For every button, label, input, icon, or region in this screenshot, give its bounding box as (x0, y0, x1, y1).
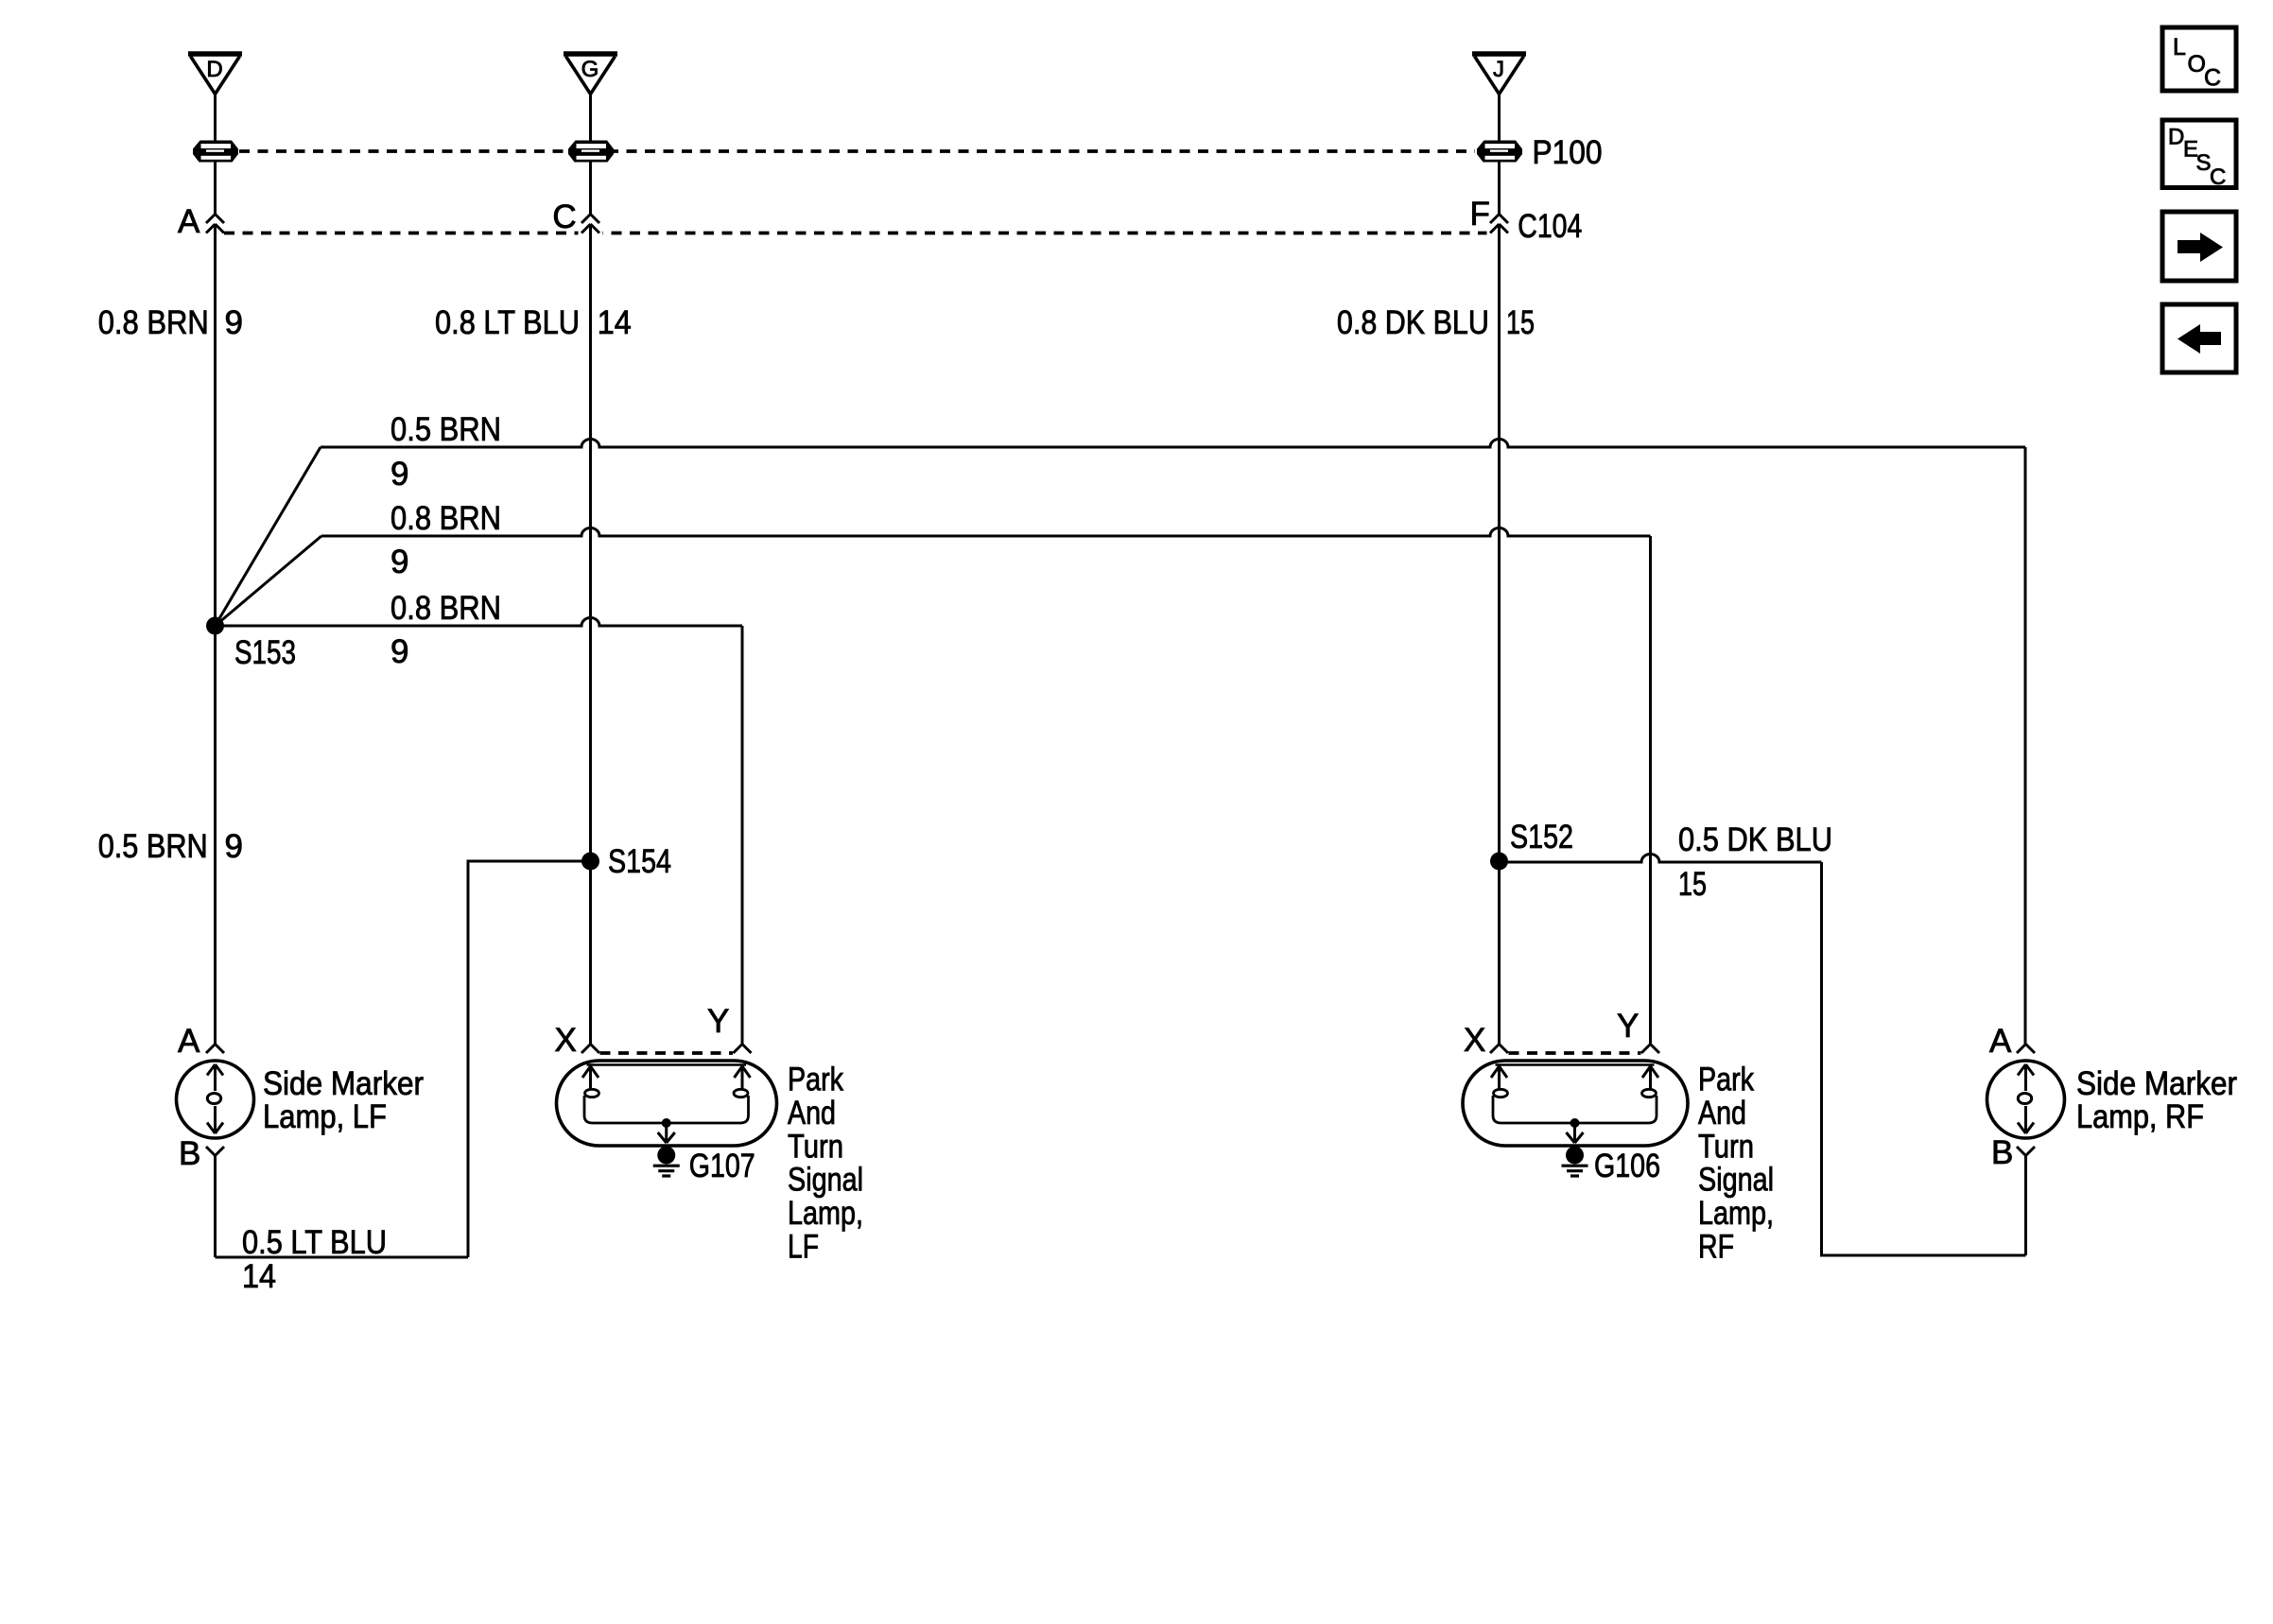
svg-text:9: 9 (390, 544, 408, 580)
svg-text:C: C (552, 199, 576, 235)
svg-text:Signal: Signal (1698, 1162, 1774, 1199)
dash knockout at pin C (579, 225, 603, 238)
legend box LOC (2162, 27, 2236, 92)
wire 0.5 BRN circuit 9 from S153 down to Side Marker LF pin A (214, 626, 217, 1045)
wire 0.8 LT BLU from C104-C down to lamp X pin (LF) (589, 224, 592, 1045)
Park/Turn Signal Lamp LF ground tap junction (662, 1118, 671, 1128)
Park/Turn Signal Lamp LF ground lead with arrow (658, 1123, 675, 1143)
Park/Turn Signal Lamp RF ground tap junction (1570, 1118, 1580, 1128)
Side Marker LF pin B chevron (206, 1147, 224, 1156)
wire: D grommet to connector C104 pin A (214, 163, 217, 215)
svg-text:0.5 BRN: 0.5 BRN (98, 828, 208, 865)
svg-text:F: F (1470, 196, 1490, 233)
wire 0.8 DK BLU from C104-F down to lamp X pin (RF) (1498, 224, 1501, 1045)
svg-text:Park: Park (788, 1062, 843, 1098)
lamp body Park/Turn Signal Lamp RF (stadium outline) (1463, 1061, 1688, 1146)
branch wire 0.8 BRN circuit 9 to Park/Turn RF pin Y (321, 528, 1651, 537)
wire up to Side Marker RF pin B (2024, 1156, 2027, 1256)
wire down right side to Side Marker RF pin A (2024, 447, 2027, 1045)
svg-text:0.8 BRN: 0.8 BRN (390, 500, 501, 537)
svg-text:A: A (1989, 1023, 2012, 1060)
grommet pass-through P100 at wire J (1477, 141, 1522, 163)
Side Marker RF pin A chevron (2017, 1045, 2035, 1054)
svg-text:B: B (1991, 1134, 2013, 1171)
svg-text:0.5 LT BLU: 0.5 LT BLU (242, 1224, 387, 1261)
svg-text:D: D (206, 57, 222, 82)
Side Marker LF pin A chevron (206, 1045, 224, 1054)
lamp body Park/Turn Signal Lamp LF (stadium outline) (557, 1061, 777, 1146)
connector triangle D (off-page reference) (188, 54, 242, 95)
grommet pass-through P100 at wire G (568, 141, 614, 163)
branch wire 0.5 BRN circuit 9 to Side Marker RF (321, 440, 2025, 448)
svg-text:X: X (1464, 1022, 1485, 1059)
wire 0.5 DK BLU circuit 15 from S152 right (1500, 855, 1822, 863)
svg-text:Side Marker: Side Marker (263, 1065, 424, 1102)
Side Marker Lamp RF bulb circle (1987, 1061, 2065, 1138)
dash knockout at pin F (1487, 225, 1512, 238)
svg-text:Lamp, RF: Lamp, RF (2076, 1098, 2204, 1135)
svg-text:L: L (2173, 34, 2186, 60)
svg-text:0.5 BRN: 0.5 BRN (390, 411, 501, 448)
svg-text:9: 9 (390, 456, 408, 492)
Side Marker LF filament (207, 1064, 223, 1133)
svg-text:Park: Park (1698, 1062, 1754, 1098)
connector C104 pin F symbol (1490, 215, 1508, 233)
svg-text:Side Marker: Side Marker (2076, 1065, 2237, 1102)
legend box DESC (2162, 120, 2236, 190)
wire 0.5 LT BLU bottom run to Side Marker LF pin B (216, 1256, 469, 1259)
svg-text:C: C (2210, 164, 2226, 190)
legend box arrow right (2162, 212, 2236, 281)
svg-text:0.8 BRN: 0.8 BRN (98, 304, 209, 341)
svg-text:0.5 DK BLU: 0.5 DK BLU (1678, 821, 1832, 858)
svg-text:14: 14 (242, 1258, 276, 1295)
svg-text:S153: S153 (234, 634, 296, 671)
dashed pin line X to Y (Park/Turn RF) (1509, 1051, 1641, 1055)
Park/Turn LF pin X chevron (581, 1045, 599, 1054)
svg-text:RF: RF (1698, 1229, 1734, 1266)
splice S154 (581, 853, 599, 871)
Park/Turn RF pin Y chevron (1641, 1045, 1659, 1054)
svg-text:G106: G106 (1594, 1148, 1660, 1184)
connector C104 pin A symbol (206, 215, 224, 233)
dashed pin line X to Y (Park/Turn LF) (600, 1051, 734, 1055)
connector triangle G (off-page reference) (564, 54, 617, 95)
wire from Side Marker LF pin B down (214, 1156, 217, 1258)
ground G106 (1562, 1147, 1588, 1177)
svg-text:9: 9 (390, 633, 408, 670)
wire: D triangle stub to grommet (214, 95, 217, 141)
Park/Turn Signal Lamp RF internal filaments and element (1491, 1065, 1658, 1124)
svg-text:And: And (1698, 1095, 1746, 1132)
svg-text:D: D (2168, 125, 2184, 150)
wire: J triangle stub to grommet (1498, 95, 1501, 141)
wire: J grommet to connector C104 pin F (1498, 163, 1501, 215)
branch wire 0.8 BRN circuit 9 from S153 to Park/Turn LF pin Y (216, 618, 743, 627)
svg-text:Lamp, LF: Lamp, LF (263, 1098, 387, 1135)
splice S153 (206, 617, 224, 635)
svg-text:9: 9 (225, 304, 243, 341)
splice S153 diagonal to branch 0.5 BRN (216, 447, 321, 626)
wire down to Park/Turn LF pin Y (741, 626, 744, 1045)
svg-text:X: X (555, 1022, 577, 1059)
splice S153 diagonal to branch 0.8 BRN (216, 536, 322, 626)
svg-text:LF: LF (788, 1229, 819, 1266)
svg-text:A: A (178, 1023, 200, 1060)
Park/Turn Signal Lamp RF ground lead with arrow (1567, 1123, 1584, 1143)
wire down to Park/Turn RF pin Y (1649, 536, 1652, 1045)
dashed harness line through P100 grommets (239, 149, 1475, 153)
svg-text:Signal: Signal (788, 1162, 863, 1199)
connector triangle J (off-page reference) (1472, 54, 1526, 95)
svg-text:G107: G107 (689, 1148, 755, 1184)
svg-text:15: 15 (1678, 866, 1707, 903)
svg-text:Lamp,: Lamp, (1698, 1195, 1774, 1232)
svg-text:S152: S152 (1510, 819, 1573, 855)
svg-text:C104: C104 (1518, 208, 1582, 245)
wire 0.8 BRN circuit 9 from C104-A down to S153 (214, 224, 217, 626)
ground G107 (653, 1147, 680, 1177)
wire: G triangle stub to grommet (589, 95, 592, 141)
svg-text:A: A (178, 203, 200, 240)
splice S152 (1490, 853, 1508, 871)
svg-text:B: B (179, 1135, 200, 1172)
svg-text:14: 14 (598, 304, 632, 341)
grommet pass-through P100 at wire D (193, 141, 238, 163)
Park/Turn LF pin Y chevron (734, 1045, 752, 1054)
svg-text:9: 9 (225, 828, 243, 865)
svg-text:0.8 BRN: 0.8 BRN (390, 590, 501, 627)
dashed connector line C104 (224, 232, 1490, 235)
svg-text:J: J (1493, 57, 1504, 82)
Park/Turn Signal Lamp LF internal filaments and element (582, 1065, 751, 1124)
wire: G grommet to connector C104 pin C (589, 163, 592, 215)
svg-text:Turn: Turn (788, 1128, 843, 1165)
Side Marker RF filament (2018, 1064, 2034, 1133)
Side Marker Lamp LF bulb circle (177, 1061, 254, 1138)
svg-text:C: C (2204, 65, 2221, 92)
svg-text:Y: Y (1617, 1008, 1639, 1045)
svg-text:0.8 LT BLU: 0.8 LT BLU (435, 304, 580, 341)
connector C104 pin C symbol (581, 215, 599, 233)
svg-text:Turn: Turn (1698, 1128, 1754, 1165)
svg-text:P100: P100 (1533, 134, 1603, 171)
svg-text:S154: S154 (608, 843, 671, 880)
svg-text:Y: Y (707, 1003, 729, 1040)
wire 0.5 DK BLU down and across to Side Marker RF pin B (1822, 862, 2026, 1255)
svg-text:0.8 DK BLU: 0.8 DK BLU (1337, 304, 1489, 341)
wire 0.5 LT BLU from S154 left then down (468, 861, 591, 1257)
Park/Turn RF pin X chevron (1490, 1045, 1508, 1054)
legend box arrow left (2162, 304, 2236, 372)
svg-text:G: G (581, 57, 599, 82)
Side Marker RF pin B chevron (2017, 1147, 2035, 1156)
svg-text:15: 15 (1506, 304, 1535, 341)
svg-text:And: And (788, 1095, 836, 1132)
svg-text:Lamp,: Lamp, (788, 1195, 863, 1232)
